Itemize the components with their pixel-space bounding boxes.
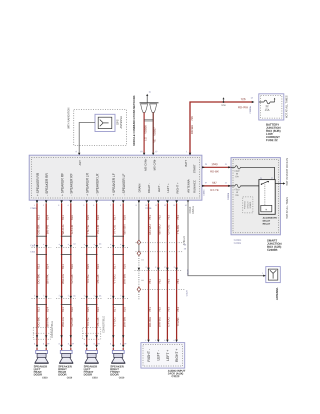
svg-text:DELAY: DELAY <box>263 220 271 223</box>
svg-text:ANT: ANT <box>78 160 82 166</box>
svg-text:LEFT +: LEFT + <box>166 183 170 193</box>
connector label C2280B <box>228 192 230 200</box>
svg-text:2: 2 <box>110 295 111 297</box>
svg-text:S1: S1 <box>141 259 143 261</box>
option box (with navigation) dashed enclosure <box>74 110 127 146</box>
svg-text:3: 3 <box>164 340 165 342</box>
GPS antenna module box <box>95 114 115 131</box>
label: jack pin RIGHT - <box>147 349 151 362</box>
svg-text:DOOR: DOOR <box>110 373 118 377</box>
svg-text:GY-LB: GY-LB <box>70 275 74 284</box>
svg-text:- SPEAKER RR: - SPEAKER RR <box>45 173 49 196</box>
svg-text:784: 784 <box>176 307 180 312</box>
svg-text:2: 2 <box>155 340 156 342</box>
svg-text:TN-YE: TN-YE <box>86 318 90 327</box>
svg-text:15A: 15A <box>265 108 270 112</box>
svg-text:1: 1 <box>93 343 94 345</box>
svg-text:DOOR: DOOR <box>58 373 66 377</box>
svg-text:817: 817 <box>113 307 117 312</box>
svg-text:RD-WH: RD-WH <box>238 105 248 109</box>
svg-text:PK-LB: PK-LB <box>96 225 100 234</box>
wire: audio input 783 GY-OG <box>164 200 171 342</box>
svg-text:2: 2 <box>43 205 44 207</box>
svg-text:RELAY: RELAY <box>263 223 271 226</box>
network bus bar <box>140 92 159 103</box>
label: coax cable <box>189 206 195 214</box>
svg-text:22: 22 <box>265 104 269 108</box>
svg-text:RUN/ACC: RUN/ACC <box>192 180 196 193</box>
svg-text:+ SPEAKER LF: + SPEAKER LF <box>112 173 116 195</box>
twisted pair tie <box>144 120 153 121</box>
svg-text:CABLE: CABLE <box>192 206 195 214</box>
svg-text:818: 818 <box>123 215 127 220</box>
svg-text:RD-BK: RD-BK <box>210 169 219 173</box>
GPS antenna symbol <box>100 120 109 127</box>
svg-text:16: 16 <box>225 164 227 166</box>
svg-text:813: 813 <box>36 307 40 312</box>
connector label C240B <box>145 208 152 210</box>
label: audio unit ANTENNA pin <box>187 179 191 192</box>
caption: smart junction box <box>267 239 282 252</box>
bus connector tulip left <box>141 104 148 113</box>
svg-text:C2280D: C2280D <box>234 240 242 242</box>
wire: speaker circuit 814 BN-PK <box>43 200 49 350</box>
label: module communications network <box>132 95 136 145</box>
svg-text:1: 1 <box>120 343 121 345</box>
svg-text:- SPEAKER LF: - SPEAKER LF <box>122 174 126 196</box>
svg-text:7: 7 <box>110 205 111 207</box>
relay coil <box>261 205 272 211</box>
svg-text:BN-PK: BN-PK <box>46 225 50 234</box>
label: convertible (left) <box>51 321 54 338</box>
label: convertible (right) <box>102 316 105 333</box>
label: audio unit pin + SPEAKER RF <box>60 173 64 196</box>
wire: antenna coax <box>188 200 266 276</box>
svg-text:TN-BK: TN-BK <box>176 318 180 327</box>
svg-text:C3123: C3123 <box>171 374 179 378</box>
label: RUN/ACC pin <box>192 180 196 193</box>
svg-text:C6: C6 <box>99 296 101 298</box>
svg-text:14: 14 <box>185 205 187 207</box>
svg-text:VT-OG: VT-OG <box>113 274 117 284</box>
svg-text:LEFT -: LEFT - <box>157 184 161 193</box>
svg-text:C610: C610 <box>67 377 73 379</box>
svg-text:816: 816 <box>96 215 100 220</box>
svg-text:2: 2 <box>34 295 35 297</box>
svg-text:GY-OG: GY-OG <box>167 224 171 234</box>
fuse 22 15A in BJB <box>259 98 276 104</box>
svg-text:10: 10 <box>145 205 147 207</box>
convertible option box right <box>83 328 101 340</box>
wire: start feed 1049 RD-BK <box>202 162 231 173</box>
fuse F2.22 in SJB <box>231 166 275 180</box>
audio input jack box <box>141 343 185 369</box>
svg-text:VT-OG: VT-OG <box>113 224 117 234</box>
svg-text:+ SPEAKER RF: + SPEAKER RF <box>60 173 64 196</box>
svg-text:4: 4 <box>173 340 174 342</box>
label: audio unit pin - SPEAKER RF <box>70 173 74 195</box>
svg-text:811: 811 <box>61 215 65 220</box>
svg-text:WH-BN: WH-BN <box>123 224 127 234</box>
pin arrow ANT into audio unit <box>76 151 81 155</box>
wire: audio input 782 WH-BU <box>155 200 162 342</box>
svg-text:784: 784 <box>176 279 180 284</box>
svg-text:HOT AT ALL TIMES: HOT AT ALL TIMES <box>286 197 289 219</box>
svg-text:817: 817 <box>113 215 117 220</box>
svg-text:810: 810 <box>70 307 74 312</box>
svg-text:C2280B: C2280B <box>228 192 230 200</box>
bus connector tulip right <box>150 104 157 113</box>
svg-text:810: 810 <box>70 264 74 269</box>
svg-text:3: 3 <box>145 267 146 269</box>
connector labels C6xx <box>73 244 101 298</box>
svg-text:S216: S216 <box>221 105 225 107</box>
svg-text:CONVERTIBLE: CONVERTIBLE <box>51 321 54 338</box>
svg-text:DRAIN: DRAIN <box>138 184 142 193</box>
label: ANT pin <box>78 160 82 166</box>
wire: speaker circuit 813 OG-BK <box>34 200 40 350</box>
svg-text:WH-BN: WH-BN <box>123 317 127 327</box>
svg-text:726: 726 <box>240 97 245 101</box>
svg-text:784: 784 <box>176 215 180 220</box>
svg-text:9: 9 <box>136 205 137 207</box>
svg-text:3: 3 <box>164 267 165 269</box>
svg-text:YE: YE <box>153 139 157 143</box>
svg-text:1: 1 <box>110 343 111 345</box>
svg-text:2: 2 <box>59 295 60 297</box>
wire: audio input 781 RD-WH <box>145 200 152 342</box>
fuse F2.12 in SJB <box>231 184 259 187</box>
label: fuse 22 15A <box>265 104 270 112</box>
label: audio unit DRAIN pin <box>138 184 142 193</box>
svg-text:815: 815 <box>86 264 90 269</box>
svg-text:ACCESSORY: ACCESSORY <box>263 217 278 220</box>
svg-text:F2.12: F2.12 <box>235 189 240 191</box>
label: MS-CAN- circuit <box>153 127 157 143</box>
svg-text:22: 22 <box>236 173 238 175</box>
svg-text:726: 726 <box>190 116 194 121</box>
label: relay pins <box>260 178 273 180</box>
svg-text:783: 783 <box>167 279 171 284</box>
svg-text:WITH NAVIGATION: WITH NAVIGATION <box>68 107 71 128</box>
svg-text:16: 16 <box>140 151 142 153</box>
svg-text:WH-LG: WH-LG <box>61 273 65 284</box>
speaker RIGHT REAR door <box>58 350 73 379</box>
inline connector pair 2 <box>56 236 76 304</box>
svg-text:OG-BK: OG-BK <box>36 225 40 235</box>
svg-text:816: 816 <box>96 264 100 269</box>
svg-text:687: 687 <box>212 181 217 185</box>
wire: MS-CAN+ twisted pair left <box>143 112 145 152</box>
svg-text:782: 782 <box>158 279 162 284</box>
svg-text:781: 781 <box>148 215 152 220</box>
wire: speaker circuit 811 WH-LG <box>59 200 65 350</box>
svg-text:814: 814 <box>46 264 50 269</box>
svg-text:37: 37 <box>205 182 207 184</box>
label: with navigation <box>68 107 71 128</box>
svg-text:+ SPEAKER RR: + SPEAKER RR <box>36 172 40 196</box>
wire: drain shield <box>137 200 144 299</box>
svg-text:13: 13 <box>251 98 253 100</box>
svg-text:4: 4 <box>67 205 68 207</box>
connector label C240A <box>30 207 37 210</box>
svg-text:12: 12 <box>225 182 227 184</box>
smart junction box <box>231 158 280 235</box>
svg-text:RD-WH: RD-WH <box>148 317 152 327</box>
svg-text:13: 13 <box>173 205 175 207</box>
svg-text:C610: C610 <box>42 377 48 379</box>
microprocessor dashed box in SJB <box>243 197 253 213</box>
svg-text:VDB06: VDB06 <box>144 125 148 134</box>
label: audio unit pin - SPEAKER LR <box>95 173 99 196</box>
svg-text:1: 1 <box>68 343 69 345</box>
speaker connector pin numbers <box>34 343 127 345</box>
svg-text:RD-WH: RD-WH <box>190 125 194 134</box>
label: BATT pin <box>184 160 188 167</box>
svg-text:TN-YE: TN-YE <box>86 275 90 284</box>
svg-text:8: 8 <box>120 205 121 207</box>
svg-text:S2: S2 <box>141 280 143 282</box>
pin arrow into antenna <box>262 273 266 277</box>
svg-text:- SPEAKER LR: - SPEAKER LR <box>95 173 99 196</box>
svg-text:810: 810 <box>70 215 74 220</box>
svg-text:2: 2 <box>43 295 44 297</box>
speaker RIGHT FRONT door <box>110 350 125 379</box>
svg-text:4: 4 <box>84 244 85 246</box>
svg-text:ANTENNA: ANTENNA <box>119 116 123 129</box>
svg-text:GY-YE: GY-YE <box>210 188 219 192</box>
svg-text:F2.22: F2.22 <box>235 171 240 173</box>
svg-text:1049: 1049 <box>211 162 218 166</box>
svg-text:1: 1 <box>34 205 35 207</box>
svg-text:DOOR: DOOR <box>34 373 42 377</box>
svg-text:LEFT -: LEFT - <box>157 350 161 360</box>
battery junction box <box>259 94 284 120</box>
svg-text:782: 782 <box>158 215 162 220</box>
svg-text:3: 3 <box>174 267 175 269</box>
svg-text:MS-CAN+: MS-CAN+ <box>143 158 147 171</box>
label: hot at all times (BJB) <box>285 95 289 118</box>
label: fuse F2.12 <box>235 189 240 197</box>
svg-text:1: 1 <box>186 151 187 153</box>
wire: run/acc feed 687 GY-YE <box>202 181 231 192</box>
label: audio unit pin LEFT + <box>166 183 170 193</box>
svg-text:814: 814 <box>46 215 50 220</box>
svg-text:BN-PK: BN-PK <box>46 274 50 283</box>
svg-text:PK-LB: PK-LB <box>96 318 100 327</box>
inline connector dashed row upper (jack group) <box>136 243 187 252</box>
label: audio unit pin RIGHT - <box>147 183 151 193</box>
svg-text:MS-CAN-: MS-CAN- <box>152 159 156 171</box>
svg-text:12: 12 <box>164 205 166 207</box>
label: circuit 726 RD-WH vertical <box>190 116 194 134</box>
svg-text:1: 1 <box>145 340 146 342</box>
svg-text:4: 4 <box>43 244 44 246</box>
svg-text:DOOR: DOOR <box>84 373 92 377</box>
svg-text:OG-BK: OG-BK <box>36 274 40 284</box>
svg-text:813: 813 <box>36 215 40 220</box>
svg-text:781: 781 <box>148 279 152 284</box>
svg-text:C240A: C240A <box>30 207 37 210</box>
svg-text:C3: C3 <box>73 244 75 246</box>
svg-text:BOARD: BOARD <box>249 201 252 208</box>
svg-text:WH-LG: WH-LG <box>61 224 65 235</box>
svg-text:36: 36 <box>205 164 207 166</box>
wire: speaker circuit 810 GY-LB <box>68 200 74 350</box>
svg-text:1: 1 <box>34 343 35 345</box>
svg-text:TN-BK: TN-BK <box>176 225 180 234</box>
speaker LEFT FRONT door <box>84 350 99 379</box>
svg-text:2: 2 <box>68 295 69 297</box>
label: jack pin RIGHT + <box>175 349 179 362</box>
svg-text:87: 87 <box>271 178 273 180</box>
label: circuit 726 RD-WH horizontal <box>238 97 248 109</box>
svg-text:815: 815 <box>86 215 90 220</box>
svg-text:4: 4 <box>59 244 60 246</box>
svg-text:4: 4 <box>120 244 121 246</box>
svg-text:813: 813 <box>36 264 40 269</box>
label: jack pin LEFT - <box>157 350 161 360</box>
svg-text:LG: LG <box>144 137 148 141</box>
svg-text:2: 2 <box>94 295 95 297</box>
svg-text:818: 818 <box>123 264 127 269</box>
svg-text:C6: C6 <box>73 296 75 298</box>
svg-text:WH-LG: WH-LG <box>61 316 65 327</box>
convertible option box left <box>33 328 51 340</box>
label: audio unit pin RIGHT + <box>175 182 179 193</box>
wire: battery feed 726 RD-WH <box>190 102 253 155</box>
wire: speaker circuit 818 WH-BN <box>120 200 126 350</box>
inline connector dashed row lower (jack group) <box>143 289 189 296</box>
svg-text:RIGHT -: RIGHT - <box>147 183 151 193</box>
svg-text:C2280A: C2280A <box>249 106 252 114</box>
svg-text:3: 3 <box>155 267 156 269</box>
svg-text:TN-YE: TN-YE <box>86 225 90 234</box>
svg-text:WH-BU: WH-BU <box>158 224 162 234</box>
svg-text:- SPEAKER RF: - SPEAKER RF <box>70 173 74 195</box>
svg-text:2: 2 <box>84 295 85 297</box>
svg-text:VDB07: VDB07 <box>153 127 157 136</box>
svg-text:15: 15 <box>149 92 151 94</box>
audio unit box <box>29 155 202 200</box>
svg-text:RIGHT +: RIGHT + <box>175 349 179 362</box>
inline connector pair 3 <box>81 236 101 304</box>
wire: MS-CAN- twisted pair right <box>152 112 154 152</box>
antenna symbol <box>270 270 276 278</box>
svg-text:C240C: C240C <box>204 189 206 196</box>
wire: GPS antenna to audio unit ANT pin <box>79 123 95 153</box>
svg-text:1: 1 <box>262 273 263 275</box>
svg-text:4: 4 <box>110 244 111 246</box>
label: MS-CAN+ circuit <box>144 125 148 141</box>
svg-text:815: 815 <box>86 307 90 312</box>
svg-text:RIGHT +: RIGHT + <box>175 182 179 193</box>
svg-text:C6: C6 <box>72 343 74 345</box>
svg-text:FUSE 22: FUSE 22 <box>266 138 278 142</box>
svg-text:30: 30 <box>260 178 262 180</box>
svg-text:RIGHT -: RIGHT - <box>147 349 151 362</box>
svg-text:ANTENNA: ANTENNA <box>187 179 191 192</box>
svg-text:PRINTED: PRINTED <box>245 200 247 209</box>
svg-text:1: 1 <box>43 343 44 345</box>
svg-text:783: 783 <box>167 215 171 220</box>
pin arrow batt into audio unit <box>186 151 191 155</box>
inline connector row C3123 (jack group) <box>135 269 190 276</box>
svg-text:C3123: C3123 <box>188 269 190 276</box>
label: hot in start or run <box>286 158 289 186</box>
label: audio unit pin + SPEAKER LF <box>112 173 116 195</box>
svg-text:BATT: BATT <box>184 160 188 167</box>
svg-text:4: 4 <box>68 244 69 246</box>
wire: speaker circuit 817 VT-OG <box>110 200 116 350</box>
svg-text:814: 814 <box>46 307 50 312</box>
label: hot at all times (SJB) <box>286 197 289 219</box>
svg-text:C3123: C3123 <box>186 289 188 296</box>
pin arrows MS-CAN into audio unit <box>140 151 157 155</box>
pin arrow into battery junction box <box>251 98 255 104</box>
svg-text:CONVERTIBLE: CONVERTIBLE <box>102 316 105 333</box>
svg-text:781: 781 <box>148 307 152 312</box>
svg-text:WH-BU: WH-BU <box>158 317 162 327</box>
svg-text:811: 811 <box>61 264 65 269</box>
wire: audio input 784 TN-BK <box>173 200 180 342</box>
svg-text:5: 5 <box>83 205 84 207</box>
caption: accessory delay relay <box>263 217 278 226</box>
svg-text:C6: C6 <box>124 343 126 345</box>
relay (accessory delay) in SJB <box>259 180 275 215</box>
label: GPS antenna <box>116 116 123 129</box>
speaker LEFT REAR door <box>34 350 49 379</box>
inline connector pair 1 <box>32 236 52 304</box>
svg-text:782: 782 <box>158 307 162 312</box>
label: audio unit pin + SPEAKER RR <box>36 172 40 196</box>
audio unit bottom connector pins <box>34 200 190 207</box>
connector label C2280A <box>249 106 252 114</box>
svg-text:15: 15 <box>155 151 157 153</box>
connector label C2280D <box>234 240 242 245</box>
svg-text:816: 816 <box>96 307 100 312</box>
caption: audio input jack <box>168 369 186 378</box>
label: MS-CAN pins <box>143 158 156 171</box>
label: audio unit pin - SPEAKER RR <box>45 173 49 196</box>
svg-text:START: START <box>192 164 196 173</box>
svg-text:1: 1 <box>84 343 85 345</box>
svg-text:C2280E: C2280E <box>234 243 242 245</box>
svg-text:C6: C6 <box>47 343 49 345</box>
svg-text:4: 4 <box>94 244 95 246</box>
relay switch contact <box>261 181 269 205</box>
wire: speaker circuit 816 PK-LB <box>94 200 100 350</box>
svg-text:40: 40 <box>184 248 186 250</box>
svg-text:WH-BN: WH-BN <box>123 274 127 284</box>
label: jack pin LEFT + <box>166 350 170 361</box>
connector label C310 <box>30 245 36 253</box>
svg-text:C3: C3 <box>99 244 101 246</box>
label: shield <box>183 236 186 245</box>
label: audio unit pin LEFT - <box>157 184 161 193</box>
svg-text:11: 11 <box>155 205 157 207</box>
svg-text:C610: C610 <box>92 377 98 379</box>
svg-text:HOT AT ALL TIMES: HOT AT ALL TIMES <box>285 95 289 118</box>
antenna box <box>266 267 281 283</box>
svg-text:6: 6 <box>93 205 94 207</box>
label: START pin <box>192 164 196 173</box>
svg-text:RD-WH: RD-WH <box>148 224 152 234</box>
wire: speaker circuit 815 TN-YE <box>84 200 90 350</box>
svg-text:LEFT +: LEFT + <box>166 350 170 361</box>
svg-text:ANTENNA: ANTENNA <box>275 287 279 300</box>
svg-text:C2280B: C2280B <box>267 248 277 252</box>
